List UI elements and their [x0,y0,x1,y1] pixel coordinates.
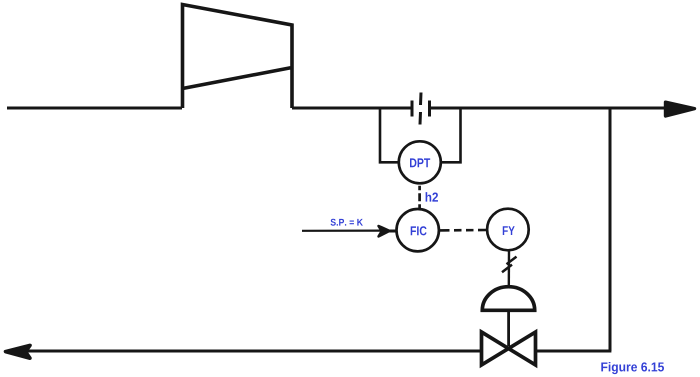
wire: dashed signal FIC to FY [440,229,488,232]
arrowhead left (return flow out) [6,345,31,358]
orifice plate right tick [428,101,431,117]
instrument FY (relay/converter) [487,209,529,251]
arrowhead right (process flow out) [666,102,695,116]
wire: top pipe right segment (orifice to right edge) [430,107,668,110]
compressor body [183,5,293,109]
instrument DPT (differential pressure transmitter) [399,141,441,183]
label S.P. = K [331,219,363,226]
wire: bottom return pipe left of valve [25,349,481,352]
wire: top pipe left segment [7,107,182,110]
orifice plate middle bar lower [419,112,423,125]
signal slash mark 1 [507,257,517,265]
valve stem [507,310,510,346]
wire: bottom return pipe right of valve [536,349,611,352]
signal slash mark 2 [502,265,512,273]
wire: dashed signal DPT to FIC [418,186,421,209]
wire: top pipe middle segment (compressor outlet to orifice) [292,107,412,110]
setpoint arrow into FIC [302,230,382,232]
instrument FIC (flow controller) [397,209,439,251]
wire: right branch down from top pipe to bottom pipe [609,108,612,351]
wire: right impulse tap to DPT [441,108,461,162]
control valve body (bowtie) [482,332,536,365]
wire: FY to valve actuator [508,250,511,288]
orifice plate left tick [411,101,414,117]
label Figure 6.15 [601,362,664,374]
wire: left impulse tap to DPT [380,108,399,162]
valve actuator diaphragm dome [482,287,534,311]
label h2 [426,192,438,201]
orifice plate middle bar upper [419,93,423,106]
